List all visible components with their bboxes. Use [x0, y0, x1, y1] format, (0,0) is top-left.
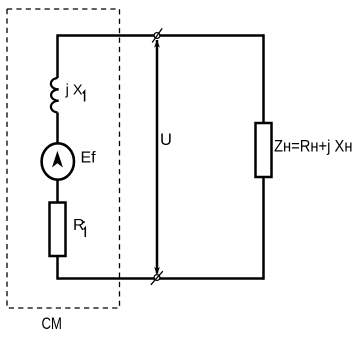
- source Ef: circle: [42, 143, 74, 179]
- load impedance Zн body: [256, 123, 272, 177]
- svg-text:U: U: [160, 131, 172, 149]
- label jX1 subscript 1: [83, 91, 85, 101]
- bottom wire: [58, 277, 264, 280]
- svg-text:Ef: Ef: [81, 149, 97, 166]
- node: top terminal circle: [154, 33, 160, 39]
- wire: below resistor: [56, 256, 59, 280]
- svg-text:j X: j X: [65, 83, 83, 99]
- svg-text:Zн=Rн+j Xн: Zн=Rн+j Xн: [274, 137, 353, 155]
- wire: between source and resistor: [56, 180, 59, 203]
- wire: right branch bottom segment: [262, 177, 265, 280]
- resistor Rj body: [50, 203, 66, 257]
- voltage arrow U: bottom arrowhead: [154, 267, 160, 275]
- node: bottom terminal circle: [154, 275, 160, 281]
- inductor jX1 coil: [51, 78, 59, 113]
- top wire: [58, 34, 264, 37]
- label Rj subscript j dot: [83, 221, 85, 223]
- node: top terminal slash: [152, 28, 162, 42]
- label Rj subscript j stem: [84, 228, 85, 237]
- wire: between inductor and source: [56, 113, 59, 145]
- node: bottom terminal slash: [151, 271, 163, 285]
- source Ef: arrow dart: [52, 151, 63, 168]
- voltage arrow U: shaft: [156, 40, 159, 274]
- wire: left branch top segment: [56, 34, 59, 78]
- dashed box: synchronous machine boundary CM: [7, 9, 120, 308]
- voltage arrow U: top arrowhead: [154, 40, 160, 48]
- svg-text:СМ: СМ: [42, 315, 63, 333]
- wire: right branch top segment: [262, 34, 265, 123]
- svg-text:R: R: [73, 217, 85, 234]
